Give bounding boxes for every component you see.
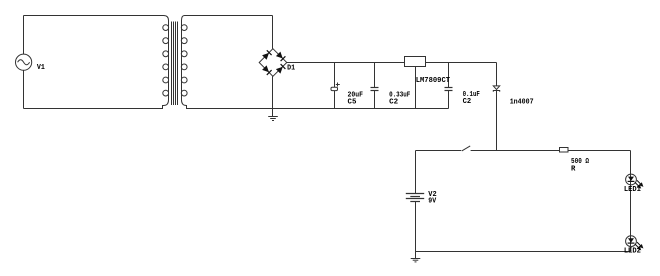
svg-text:V1: V1 bbox=[37, 64, 45, 72]
svg-text:C2: C2 bbox=[389, 98, 398, 106]
svg-text:C2: C2 bbox=[463, 98, 472, 106]
svg-text:LM7809CT: LM7809CT bbox=[416, 77, 451, 85]
svg-text:LED1: LED1 bbox=[624, 186, 641, 194]
svg-text:9V: 9V bbox=[428, 197, 436, 205]
svg-text:1n4007: 1n4007 bbox=[510, 98, 534, 106]
svg-text:D1: D1 bbox=[287, 65, 295, 73]
svg-text:C5: C5 bbox=[348, 98, 357, 106]
svg-text:LED2: LED2 bbox=[624, 248, 641, 256]
svg-text:R: R bbox=[571, 165, 576, 173]
